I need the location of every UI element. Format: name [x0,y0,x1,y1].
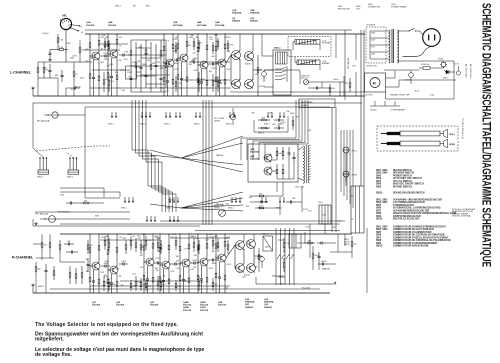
svg-text:2SC634: 2SC634 [218,304,227,307]
resistor R304 [69,266,71,273]
switch SW5 power [409,28,415,31]
svg-text:SW2-1: SW2-1 [67,177,74,179]
svg-text:AUFNAHME- UND WIEDERGABESCHALT: AUFNAHME- UND WIEDERGABESCHALTER [393,199,442,202]
wire lower-left bus [33,225,200,227]
jack DC IN [456,71,460,75]
wire right verticals top strip [344,30,346,100]
wire R supply rail 2 [195,230,340,232]
svg-text:1-5217: 1-5217 [127,72,132,74]
svg-text:220: 220 [242,277,245,279]
switch contacts [275,68,281,70]
wire long mid bus 2 [85,106,330,108]
wire right column joins [345,153,347,186]
svg-text:.047: .047 [248,197,252,199]
connector pin P5 [149,112,151,116]
resistor resistor RC10 [193,238,195,243]
svg-text:2SC634: 2SC634 [183,309,192,312]
svg-text:100K: 100K [66,43,71,45]
svg-text:.047: .047 [205,239,209,241]
connector pin Q7 [231,197,233,201]
resistor R303 [59,240,61,245]
wire line out run [309,81,346,83]
svg-text:SW4-2: SW4-2 [262,234,268,236]
connector pin Q9 [239,197,241,201]
svg-text:DC IN: DC IN [454,64,460,66]
capacitor C301 [64,243,68,245]
svg-text:POWER SWITCH: POWER SWITCH [393,175,412,177]
wire osc to coil [298,147,303,150]
svg-text:MUTING SWITCH: MUTING SWITCH [393,186,412,188]
wire ground rail top strip [33,95,365,97]
resistor resistor RD3 [135,276,137,281]
svg-text:.047: .047 [138,238,142,240]
wire jack J3 leads [55,218,130,220]
svg-text:0.022: 0.022 [173,39,178,41]
svg-text:1M: 1M [296,117,299,119]
resistor R osc1 [276,147,278,151]
resistor resistor RA1 [108,40,110,44]
svg-text:100K: 100K [138,47,143,49]
wire input feed [66,52,85,62]
capacitor C372v [318,252,320,256]
diode D601 [446,70,449,74]
resistor R308 [35,262,37,267]
transistor Q13 oscillator [264,154,272,162]
resistor resistor RC14 [227,240,229,245]
switch SW1-1 cluster [39,158,41,170]
capacitor C371h [317,242,321,244]
meter VU record level [219,210,226,217]
wire output stage connections [226,55,231,63]
wire cord squiggle [403,46,432,56]
dashed box voltage selector [366,27,386,63]
svg-text:2SC458A: 2SC458A [250,158,260,161]
wire motor leads [386,77,396,79]
svg-text:SW1-1: SW1-1 [37,177,44,179]
resistor resistor RA3 [193,38,195,42]
wire below osc [276,182,278,192]
wire right edge vertical [366,228,368,293]
potentiometer VR-1 [230,114,236,120]
resistor resistor RC4 [135,238,137,243]
svg-text:2SC634A: 2SC634A [215,24,225,27]
svg-text:Q7A: Q7A [232,9,237,12]
svg-text:0.01: 0.01 [121,90,125,92]
svg-text:MUTING SW: MUTING SW [347,58,349,69]
svg-text:SW7: SW7 [376,210,382,212]
svg-text:SW10: SW10 [376,193,383,195]
svg-text:100/10: 100/10 [245,64,251,66]
wire R supply rail [60,233,352,235]
connector pin P4 [145,112,147,116]
svg-text:COMMUTATEUR DE CONTROLE DE POL: COMMUTATEUR DE CONTROLE DE POLARISATION [393,239,451,242]
connector pin P9 [179,112,181,116]
svg-text:0.01: 0.01 [246,241,250,243]
wire R interstage couplings [101,265,105,267]
svg-text:2SB405A: 2SB405A [245,301,255,304]
svg-text:680: 680 [104,45,107,47]
switch SW2-1 cluster [69,158,71,170]
svg-text:2SB405: 2SB405 [232,20,241,23]
svg-text:100K: 100K [209,268,214,270]
svg-text:SW4-1: SW4-1 [258,208,264,210]
svg-text:100K: 100K [189,37,194,39]
wire below osc mesh [301,186,303,212]
capacitor C osc2 [293,152,295,157]
svg-text:680: 680 [214,81,217,83]
svg-text:SW6: SW6 [376,178,382,180]
connector pin H147 [146,216,148,220]
svg-text:SW3: SW3 [95,216,99,218]
transistor Q25 stage [188,234,190,244]
svg-text:1M: 1M [163,275,166,277]
svg-text:SW6 AUTO SHUT OFF: SW6 AUTO SHUT OFF [390,94,411,97]
transistor Q9 output [232,80,241,89]
ground [49,58,51,60]
resistor resistor RC12 [212,236,214,241]
svg-text:100K: 100K [290,113,295,115]
svg-text:100K: 100K [72,56,77,58]
svg-text:SW3, SW4: SW3, SW4 [376,201,388,204]
connector pin P10 [195,112,197,116]
svg-text:Q25A: Q25A [183,306,189,309]
resistor R372v [312,250,314,254]
svg-text:10/16: 10/16 [192,260,197,262]
connector pin Q11 [265,197,267,201]
svg-text:ERASER: ERASER [322,62,330,65]
svg-text:SW6: SW6 [376,235,382,237]
svg-text:100/10: 100/10 [213,205,219,207]
wire R output interconnect [226,245,235,258]
resistor R104 [37,62,39,68]
svg-text:TC-366 3-552-116-11: TC-366 3-552-116-11 [461,118,463,139]
svg-text:220: 220 [210,39,213,41]
svg-text:220: 220 [210,234,213,236]
svg-text:600 ohm: 600 ohm [301,78,309,80]
wire vertical pair mid-right [331,107,333,232]
svg-text:SW9: SW9 [376,186,382,188]
motor M601 [365,73,386,92]
svg-text:FUSE 1A: FUSE 1A [421,63,430,66]
connector pin H170 [169,216,171,220]
ground [35,222,37,224]
wire lower-left extras [60,191,120,193]
svg-text:COMMUTATEUR D'OSCILLATION D'EF: COMMUTATEUR D'OSCILLATION D'EFFACEMENT [393,236,449,239]
svg-text:10/16: 10/16 [121,261,126,263]
svg-text:RQ-2000: RQ-2000 [302,288,311,290]
svg-text:2SB405: 2SB405 [264,306,273,309]
wire switch feeds [32,103,34,148]
switch wafer hatch [275,52,277,64]
svg-text:POWER TRANS: POWER TRANS [391,6,407,9]
resistor resistor RD7 [160,278,162,282]
wire mic down [65,30,67,52]
svg-text:100/10: 100/10 [75,87,81,89]
svg-text:Q24A: Q24A [183,301,189,304]
transistor Q31 output [247,264,256,273]
transistor Q24 stage [168,234,170,245]
tape head erase L [297,60,320,65]
svg-text:SP(R): SP(R) [449,144,455,146]
svg-text:REC: REC [146,6,151,8]
svg-text:STROMSCHALTER: STROMSCHALTER [393,204,414,207]
connector pin P3 [141,112,143,116]
svg-text:1M: 1M [119,276,122,278]
svg-text:L-CHANNEL: L-CHANNEL [10,71,32,75]
switch SW1-2 wafer box [273,50,291,95]
wire lineout mesh [308,87,312,89]
capacitor C102 [49,64,51,70]
svg-text:Q3A: Q3A [173,21,178,24]
connector pin P6 [165,112,167,116]
svg-text:SW6: SW6 [376,208,382,210]
svg-text:470: 470 [115,72,118,74]
transistor Q30 output [236,264,245,273]
svg-text:2SB405: 2SB405 [250,20,259,23]
wire selector taps [370,30,389,32]
transistor Q14 oscillator [264,167,272,175]
svg-text:680: 680 [252,112,255,114]
svg-text:The Voltage Selector is not eq: The Voltage Selector is not equipped on … [35,322,179,328]
svg-text:OSC COIL: OSC COIL [295,187,304,189]
resistor R146 [349,78,351,83]
wire R mid mesh [278,239,284,241]
resistor R102 [57,34,59,38]
resistor/capacitor EQ5 [150,42,152,65]
wires R input [41,252,43,260]
box SW section small [263,236,273,251]
svg-text:PL601: PL601 [438,59,443,61]
wire head2 leads [295,61,297,63]
svg-text:2SC458: 2SC458 [150,304,159,307]
resistor R302 [49,238,51,243]
transistor Q5 stage [206,34,208,45]
svg-text:AUTOMATISCHE, LAUFWERKSCHALTUN: AUTOMATISCHE, LAUFWERKSCHALTUNG [393,207,441,210]
connector pin P1 [111,112,113,116]
resistor resistor RC7 [157,238,159,243]
resistor R371 [283,238,285,243]
connector pin P7 [169,112,171,116]
resistor/capacitor EQ6 [155,44,157,65]
svg-text:SW2-3: SW2-3 [258,133,264,135]
svg-text:SW1: SW1 [70,58,74,60]
svg-text:SW7: SW7 [376,181,382,183]
svg-text:330: 330 [37,269,40,271]
svg-text:MIC: MIC [63,15,68,18]
jack J2 MIC AUX L [52,112,58,118]
svg-text:560: 560 [259,194,262,196]
svg-text:0.01: 0.01 [165,91,169,93]
capacitor C below osc 2 [286,201,290,203]
resistor R below osc 2 [255,207,259,209]
svg-text:SW8: SW8 [376,184,382,186]
svg-text:1M: 1M [257,256,260,258]
wire long bus lower band 3 [60,223,340,225]
capacitor C104 [61,70,63,75]
box EQ network module [126,66,137,79]
tape head REC/PB L [295,40,320,45]
svg-text:2SC634A: 2SC634A [197,24,207,27]
svg-text:1000/16: 1000/16 [405,80,412,82]
resistor/capacitor EQ1 [130,40,132,51]
resistor resistor RA0 [104,38,106,42]
svg-text:2SB405A: 2SB405A [232,12,242,15]
svg-text:SOUND ON SOUND SWITCH: SOUND ON SOUND SWITCH [393,193,425,195]
svg-text:LAUTSPRECHERSCHALTER: LAUTSPRECHERSCHALTER [393,201,425,204]
resistor resistor RB1 [108,74,110,81]
svg-text:de voltage fixe.: de voltage fixe. [35,352,72,358]
svg-text:CN-601: CN-601 [370,110,377,112]
svg-text:BIAS OSC ON-OFF SWITCH: BIAS OSC ON-OFF SWITCH [393,183,424,186]
svg-text:680: 680 [55,75,58,77]
resistor resistor RB3 [198,72,200,80]
svg-text:SW1-5: SW1-5 [115,6,121,8]
resistor R351 [351,236,353,242]
svg-text:SW1-2: SW1-2 [274,48,281,50]
svg-text:100K: 100K [212,263,217,265]
resistor/capacitor EQ7 [160,40,162,51]
svg-text:LEVEL: LEVEL [214,120,221,122]
transistor Q28 output [236,241,245,250]
transistor Q7 output [232,51,241,60]
resistor/capacitor EQ4 [145,40,147,50]
svg-text:Q27A: Q27A [200,306,206,309]
transistor Q4 stage [186,34,188,42]
wire left ground stub [32,90,34,96]
svg-text:2SC458A: 2SC458A [250,151,260,154]
transistor Q2 stage [116,34,118,40]
resistor resistor RA2 [175,42,177,46]
svg-text:SW8: SW8 [376,240,382,242]
wire to line out [264,69,300,71]
wire harness bundle B [202,100,204,225]
svg-text:SP(L): SP(L) [449,134,455,136]
svg-text:M: M [373,81,376,85]
svg-text:2SB405A: 2SB405A [250,12,260,15]
svg-text:mitgeliefert.: mitgeliefert. [35,337,64,343]
svg-text:AUFNAHMEANZEIGESCHALTER: AUFNAHMEANZEIGESCHALTER [393,209,429,212]
resistor R105 [73,66,75,72]
svg-text:0.25mV: 0.25mV [42,33,49,35]
svg-text:10/16: 10/16 [174,63,179,65]
plug speaker R [381,143,387,145]
wire short bus lower [35,211,130,213]
resistor R309 [53,266,55,271]
svg-text:100K: 100K [104,261,109,263]
connector pin H178 [177,216,179,220]
svg-text:COMMUTATEUR SON-SUR-SON: COMMUTATEUR SON-SUR-SON [393,245,429,248]
svg-text:220: 220 [157,62,160,64]
connector pin Q1 [124,197,126,201]
plug speaker L [381,133,387,135]
wire R right verticals [309,224,311,258]
dashed box head assembly [288,37,331,57]
svg-text:MUTING SW: MUTING SW [338,8,350,10]
resistor R106 [79,44,81,48]
svg-text:MULTIPLEX-SCHALTER: MULTIPLEX-SCHALTER [393,218,420,221]
resistor/capacitor EQ2 [135,42,137,63]
transistor Q27 stage [224,234,226,242]
transistor Q10 output [245,80,254,89]
fuse F601 [423,67,430,70]
resistor/capacitor EQ8 [165,42,167,63]
svg-text:POWER SW: POWER SW [368,7,380,9]
resistor resistor RC6 [145,236,147,241]
resistor resistor RD2 [130,280,132,283]
wire R left mesh [36,257,54,259]
svg-text:R/P HEAD: R/P HEAD [322,42,331,45]
svg-text:OSC: OSC [356,8,361,10]
connector pin P16 [279,112,281,116]
resistor R osc4 [282,164,284,169]
svg-text:680: 680 [121,285,124,287]
plug P601 AC power plug [423,29,441,47]
box speaker terminal [351,186,364,233]
wire trunk pair right [360,30,362,186]
capacitor C601 filter [409,73,414,78]
capacitor C302 [66,251,71,253]
svg-text:470: 470 [345,83,348,85]
svg-text:100/10: 100/10 [321,261,327,263]
svg-text:SELECTOR: SELECTOR [367,66,378,68]
svg-text:Q4A: Q4A [197,21,202,24]
wire dashed mechanical links [36,146,93,151]
svg-text:2SC634: 2SC634 [200,304,209,307]
svg-text:SW7: SW7 [376,237,382,239]
resistor resistor RD10 [212,278,214,282]
svg-text:COMMUTATEUR DE COUPURE AUTOMAT: COMMUTATEUR DE COUPURE AUTOMATIQUE [393,234,445,237]
svg-text:SW9: SW9 [376,216,382,218]
resistor resistor RB4 [212,74,214,81]
svg-text:220: 220 [353,244,356,246]
svg-text:R-CHANNEL: R-CHANNEL [12,256,34,260]
dashed box external speakers [377,126,458,151]
resistor resistor RD4 [140,278,142,282]
svg-text:330: 330 [189,64,192,66]
svg-text:0.01: 0.01 [160,88,164,90]
wire fan lower [181,192,243,208]
svg-text:330: 330 [137,236,140,238]
capacitor C101 [49,50,51,54]
svg-text:10/16: 10/16 [110,284,115,286]
svg-text:SW1-1: SW1-1 [108,124,114,126]
svg-text:2SC458: 2SC458 [86,24,95,27]
svg-text:D601: D601 [443,78,448,80]
wire R output node [254,255,262,257]
resistor R101 input attenuator [55,49,59,51]
svg-text:EIN/AUS SCHALTER FÜR VORSPANNU: EIN/AUS SCHALTER FÜR VORSPANNUNGSOSZILLA… [393,212,456,215]
connector pin H174 [173,216,175,220]
resistor resistor RC11 [198,240,200,245]
connector pin P2 [115,112,117,116]
resistor R118 output emitter [257,60,259,68]
svg-text:REC/PB AMP: REC/PB AMP [301,101,313,104]
svg-text:1M: 1M [196,37,199,39]
svg-text:AC 220V 50Hz: AC 220V 50Hz [469,64,472,78]
wire input extras [79,40,81,44]
resistor resistor RA5 [212,42,214,46]
svg-text:.047: .047 [140,255,144,257]
resistor resistor RD8 [175,280,177,283]
wire left input mesh [38,61,66,63]
resistor R306 [81,266,83,273]
connector pin H155 [154,216,156,220]
wire osc internals [272,159,277,161]
svg-text:47/6.3: 47/6.3 [104,59,109,61]
wire R left stub [32,287,34,293]
svg-text:SW1, SW2: SW1, SW2 [376,170,388,172]
transistor Q1 stage [98,34,100,41]
